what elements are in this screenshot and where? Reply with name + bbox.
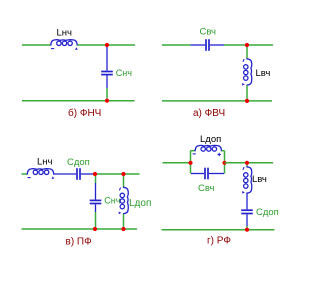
svg-text:Свч: Свч bbox=[200, 27, 216, 38]
svg-text:в) ПФ: в) ПФ bbox=[66, 236, 93, 247]
capacitor Cvch (band-stop parallel) bbox=[191, 173, 204, 175]
svg-text:Lдоп: Lдоп bbox=[200, 134, 221, 145]
wire: Lvch lower lead bbox=[246, 85, 248, 101]
minus mark of Ldop bbox=[193, 153, 196, 155]
svg-text:а) ФВЧ: а) ФВЧ bbox=[193, 108, 225, 119]
wire: parallel-LC top-left stub bbox=[191, 150, 195, 152]
wire: Cnch upper lead (green part) bbox=[95, 175, 97, 183]
capacitor Cdop (band-stop shunt) bbox=[246, 193, 248, 209]
svg-text:Сдоп: Сдоп bbox=[256, 207, 279, 218]
svg-text:г) РФ: г) РФ bbox=[207, 236, 231, 247]
wire: high-pass top-left input bbox=[162, 44, 191, 46]
svg-text:Cнч: Cнч bbox=[116, 68, 132, 78]
wire: Lvch upper lead bbox=[246, 164, 248, 167]
node: band-pass bottom junction 2 bbox=[121, 227, 125, 231]
node: low-pass top junction bbox=[105, 43, 109, 47]
svg-text:Lдоп: Lдоп bbox=[129, 198, 151, 209]
svg-text:Cнч: Cнч bbox=[104, 196, 120, 206]
wire: band-pass top-right bbox=[95, 173, 140, 175]
node: band-stop bottom junction bbox=[245, 228, 249, 232]
wire: high-pass bottom rail bbox=[162, 100, 272, 102]
wire: band-pass bottom rail bbox=[22, 228, 138, 230]
wire: Cdop lower lead (green part) bbox=[246, 226, 248, 230]
wire: parallel-LC right rail bbox=[224, 151, 226, 174]
node: low-pass bottom junction bbox=[105, 99, 109, 103]
wire: Lvch upper lead bbox=[246, 46, 248, 59]
node: high-pass top junction bbox=[245, 43, 249, 47]
inductor Ldop (band-pass shunt coil) bbox=[120, 187, 128, 213]
wire: low-pass bottom rail bbox=[22, 100, 135, 102]
wire: Ldop upper lead bbox=[123, 174, 125, 187]
node: parallel-LC left node bbox=[188, 161, 192, 165]
capacitor Cnch (band-pass shunt) bbox=[95, 183, 97, 200]
node: band-pass top junction 1 bbox=[93, 172, 97, 176]
node: band-stop top junction bbox=[245, 161, 249, 165]
svg-text:Lнч: Lнч bbox=[57, 28, 73, 39]
svg-text:Сдоп: Сдоп bbox=[67, 157, 90, 168]
svg-text:Lвч: Lвч bbox=[252, 174, 267, 185]
node: high-pass bottom junction bbox=[245, 99, 249, 103]
wire: Cnch lower lead (green part) bbox=[95, 212, 97, 229]
capacitor Cvch (high-pass series) bbox=[191, 44, 206, 46]
node: band-pass top junction 2 bbox=[121, 172, 125, 176]
wire: band-stop bottom rail bbox=[162, 229, 275, 231]
node: band-pass bottom junction 1 bbox=[93, 227, 97, 231]
inductor Lvch (high-pass shunt coil) bbox=[244, 59, 252, 85]
wire: band-stop input bbox=[163, 162, 191, 164]
capacitor Cdop (band-pass series) bbox=[54, 173, 76, 175]
inductor Lvch (band-stop shunt coil) bbox=[244, 167, 252, 193]
wire: parallel-LC top-right stub bbox=[222, 150, 225, 152]
plus mark of Ldop bbox=[218, 153, 221, 156]
inductor Ldop (band-stop parallel coil) bbox=[195, 145, 221, 151]
svg-text:Lвч: Lвч bbox=[256, 68, 271, 79]
wire: band-pass input bbox=[22, 173, 28, 175]
svg-text:Свч: Свч bbox=[198, 183, 214, 194]
svg-text:б) ФНЧ: б) ФНЧ bbox=[68, 107, 101, 119]
inductor Lnch (low-pass series coil) bbox=[51, 40, 77, 46]
wire: parallel-LC left rail bbox=[190, 151, 192, 174]
wire: high-pass top-right bbox=[224, 44, 273, 46]
inductor Lnch (band-pass series coil) bbox=[27, 169, 53, 175]
capacitor Cnch (low-pass shunt) bbox=[106, 46, 108, 71]
wire: Ldop lower lead bbox=[123, 214, 125, 229]
wire: low-pass top-right bbox=[77, 44, 135, 46]
node: parallel-LC right node bbox=[222, 161, 226, 165]
wire: low-pass top-left input bbox=[22, 44, 51, 46]
svg-text:Lнч: Lнч bbox=[37, 157, 53, 168]
wire: band-stop top-right bbox=[225, 162, 274, 164]
wire: Cnch lower lead to bottom rail bbox=[106, 88, 108, 101]
